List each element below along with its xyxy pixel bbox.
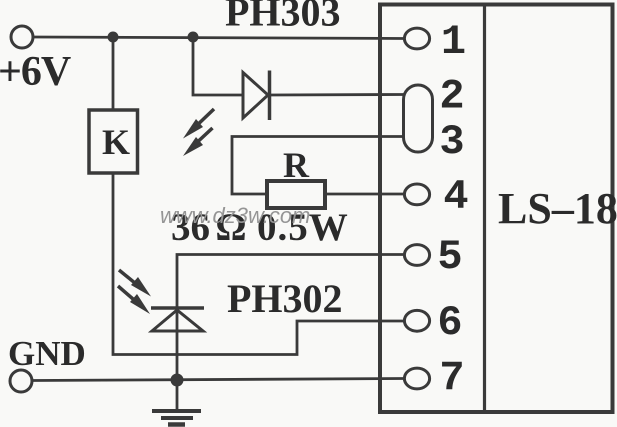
relay K box <box>89 110 138 173</box>
pin 7 <box>404 368 429 389</box>
wire resistor to pin 4 <box>325 193 404 196</box>
svg-text:2: 2 <box>439 73 464 121</box>
pin 2-3 stadium <box>404 85 433 152</box>
wire pin 5 left and down to photodiode PH302 <box>177 255 404 381</box>
wire relay K bottom to pin 6 <box>113 173 404 355</box>
svg-text:4: 4 <box>443 173 468 221</box>
ground <box>152 411 201 425</box>
svg-text:www.dz3w.com: www.dz3w.com <box>160 203 310 228</box>
PH302 incoming light arrow 2 <box>118 286 150 314</box>
svg-text:PH303: PH303 <box>225 0 341 35</box>
node junction top rail to LED <box>188 32 199 43</box>
wire pin 3 left and down to resistor <box>232 137 404 195</box>
terminal GND <box>10 370 32 392</box>
wire junction down to relay K <box>112 37 115 110</box>
terminal +6V <box>11 26 33 48</box>
IC LS-18 box <box>380 5 613 413</box>
svg-text:GND: GND <box>8 334 86 373</box>
svg-text:R: R <box>283 145 310 185</box>
pin 4 <box>404 184 429 205</box>
LED PH303 diode triangle <box>243 73 268 119</box>
wire top rail from +6V terminal to pin 1 <box>33 37 404 39</box>
LED PH303 cathode bar <box>268 71 272 121</box>
photodiode PH302 triangle <box>152 310 203 331</box>
PH302 incoming light arrow 1 <box>119 270 151 297</box>
svg-text:+6V: +6V <box>0 49 71 95</box>
svg-text:3: 3 <box>439 118 464 166</box>
wire GND rail to pin 7 <box>32 379 404 381</box>
svg-text:7: 7 <box>439 355 464 403</box>
pin 6 <box>404 310 429 331</box>
pin 1 <box>404 28 429 49</box>
node junction GND rail to ground <box>171 374 184 387</box>
svg-text:K: K <box>102 122 130 162</box>
wire junction to ground symbol <box>176 380 179 411</box>
resistor R body <box>267 181 325 208</box>
IC LS-18 internal divider <box>483 5 486 413</box>
svg-text:PH302: PH302 <box>227 276 343 321</box>
node junction top rail to K <box>108 32 119 43</box>
LED emission arrow 2 <box>183 128 213 156</box>
svg-text:LS–18: LS–18 <box>498 184 617 233</box>
wire LED cathode to pin 2 <box>269 93 404 96</box>
pin 5 <box>404 245 429 266</box>
photodiode PH302 cathode bar <box>151 306 204 310</box>
LED emission arrow 1 <box>183 109 214 139</box>
svg-text:6: 6 <box>437 299 462 347</box>
svg-text:5: 5 <box>437 233 462 281</box>
svg-text:1: 1 <box>441 18 466 66</box>
wire LED branch from junction down and right to anode <box>193 37 243 95</box>
